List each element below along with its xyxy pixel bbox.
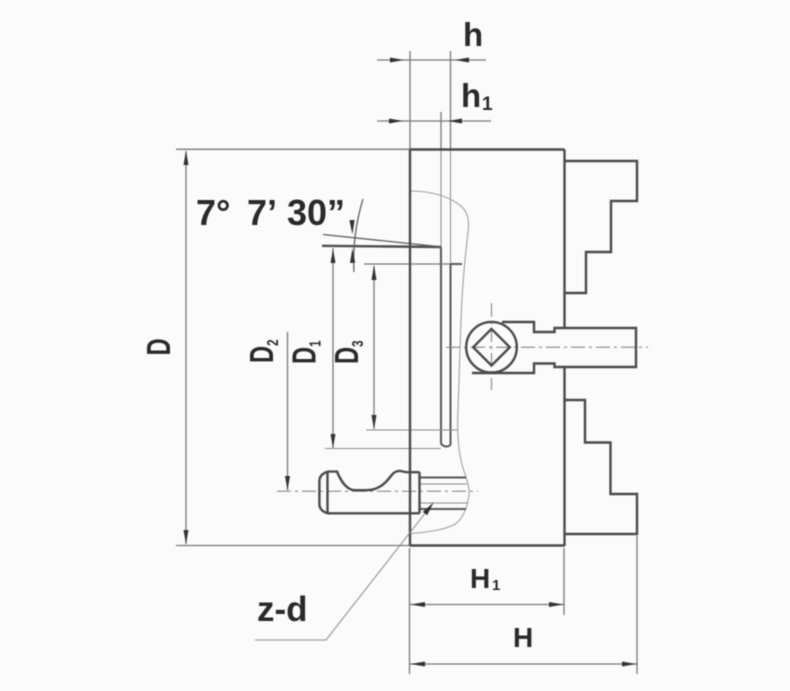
svg-text:7°7’30”: 7°7’30” [196,192,345,233]
svg-text:1: 1 [482,94,493,115]
svg-text:H: H [513,622,533,653]
svg-text:h: h [463,16,483,53]
svg-text:H: H [470,563,490,594]
svg-text:h: h [461,77,481,114]
svg-text:D: D [141,338,178,355]
svg-text:z-d: z-d [257,590,308,629]
svg-text:1: 1 [492,577,500,594]
